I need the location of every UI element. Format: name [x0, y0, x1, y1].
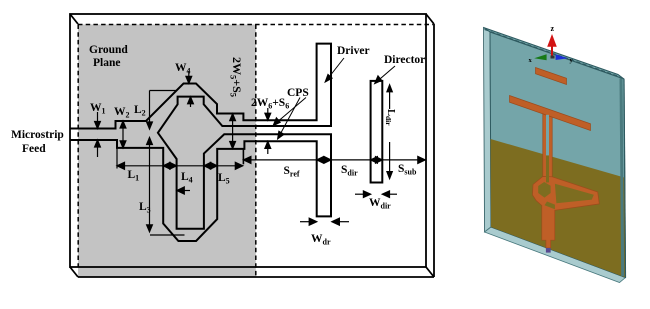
svg-text:CPS: CPS: [287, 87, 309, 99]
svg-text:Sdir: Sdir: [341, 164, 358, 178]
svg-text:Driver: Driver: [337, 45, 370, 57]
svg-text:Wdr: Wdr: [311, 233, 331, 247]
svg-text:Microstrip: Microstrip: [11, 129, 64, 141]
svg-text:Ssub: Ssub: [398, 163, 417, 177]
svg-text:Sref: Sref: [284, 165, 300, 179]
svg-text:Feed: Feed: [22, 143, 46, 155]
svg-text:Director: Director: [384, 54, 425, 66]
svg-text:Wdir: Wdir: [369, 197, 391, 211]
svg-text:Ground: Ground: [89, 44, 128, 56]
svg-text:2W6+S6: 2W6+S6: [251, 97, 289, 111]
svg-text:Plane: Plane: [93, 57, 120, 69]
svg-text:z: z: [551, 24, 555, 33]
